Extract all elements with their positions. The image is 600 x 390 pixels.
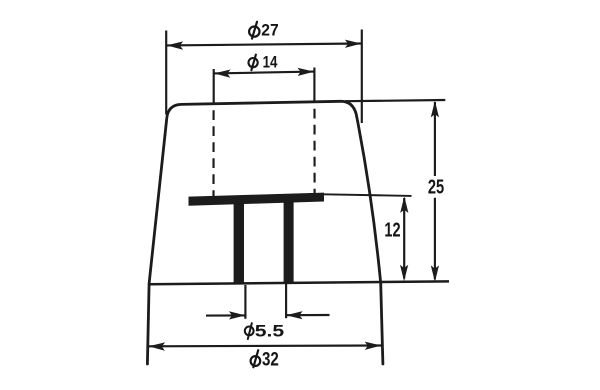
dim phi14 dimension line xyxy=(214,72,314,74)
dim 12 top arrowhead xyxy=(400,196,408,213)
flange right extension line to 12 dim xyxy=(324,194,412,196)
body outline xyxy=(147,101,383,364)
dim phi5.5 right arrowhead xyxy=(286,311,303,319)
dim 12 bottom arrowhead xyxy=(400,265,408,282)
dim phi5.5 label xyxy=(245,323,284,341)
svg-text:32: 32 xyxy=(262,349,279,370)
body bottom line xyxy=(149,281,449,284)
dim phi14 right extension line solid xyxy=(313,68,315,103)
svg-text:25: 25 xyxy=(428,176,444,198)
dim 12 dimension line xyxy=(403,198,405,279)
svg-text:12: 12 xyxy=(384,220,400,242)
dim phi14 left arrowhead xyxy=(214,70,231,78)
dim phi27 left arrowhead xyxy=(167,41,184,49)
svg-text:14: 14 xyxy=(263,54,278,72)
dim phi32 left arrowhead xyxy=(149,342,166,350)
dim phi5.5 right extension line xyxy=(285,284,287,318)
dim phi5.5 left extension line xyxy=(244,285,246,319)
slot right leg xyxy=(284,202,294,283)
dim phi27 label xyxy=(249,20,279,39)
svg-text:5.5: 5.5 xyxy=(255,323,284,341)
dim phi27 right extension line xyxy=(361,30,363,124)
dim phi5.5 left dimension line segment xyxy=(206,314,245,316)
dim phi14 left extension line solid xyxy=(213,69,215,104)
dim phi32 right arrowhead xyxy=(365,342,382,350)
dim phi5.5 right dimension line segment xyxy=(286,314,329,316)
slot flange (filled bar) xyxy=(189,193,325,206)
dim 25 bottom arrowhead xyxy=(431,265,439,282)
dim phi14 right extension line dashed xyxy=(313,103,315,194)
dim 25 top arrowhead xyxy=(431,101,439,118)
dim phi27 right arrowhead xyxy=(345,40,362,48)
top extension line to 25 dim xyxy=(345,100,445,101)
dim phi14 right arrowhead xyxy=(297,68,314,76)
dim phi27 dimension line xyxy=(167,44,361,46)
dim 25 dimension line upper segment xyxy=(434,102,436,176)
slot left leg xyxy=(234,204,244,284)
dim 25 dimension line lower segment xyxy=(434,198,436,279)
dim phi27 left extension line xyxy=(165,31,167,115)
dim phi32 label xyxy=(251,349,279,370)
dim phi5.5 left arrowhead xyxy=(229,311,246,319)
dim phi14 label xyxy=(249,54,279,72)
dim phi14 left extension line dashed xyxy=(212,104,214,197)
dim phi32 dimension line xyxy=(149,344,382,347)
svg-text:27: 27 xyxy=(261,20,278,39)
